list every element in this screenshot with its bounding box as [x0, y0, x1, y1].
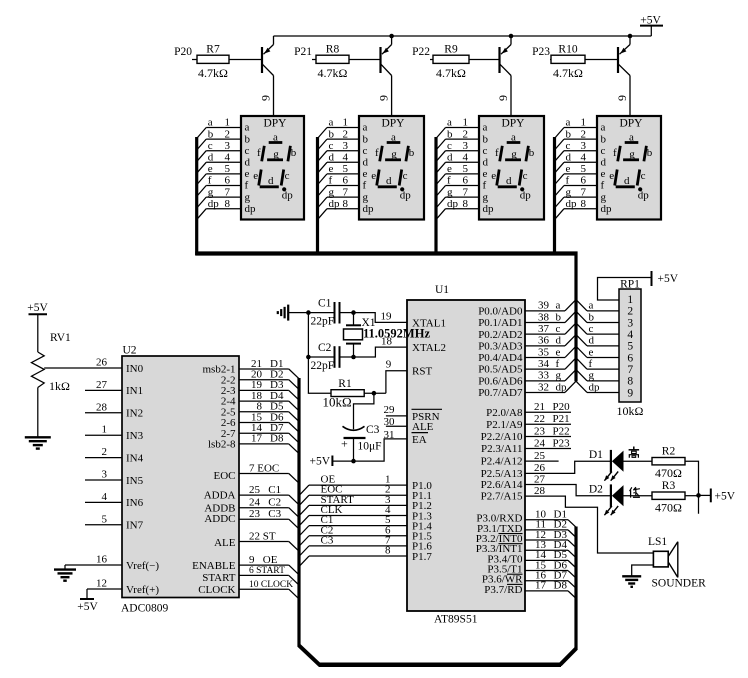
+5V supply (Vref+) [77, 589, 98, 613]
svg-text:R2: R2 [662, 446, 676, 458]
svg-text:DPY: DPY [619, 118, 643, 130]
svg-text:Vref(+): Vref(+) [126, 584, 159, 596]
resistor R1 10k&#937; [323, 378, 365, 410]
svg-text:d: d [601, 157, 607, 169]
svg-text:d: d [363, 157, 369, 169]
LED D1 [589, 449, 624, 481]
bus: bottom U-loop [299, 645, 577, 665]
wire U2 control 22 ST to bus [239, 530, 299, 551]
svg-text:9: 9 [615, 95, 629, 101]
wire to XTAL2 pin 18 [354, 335, 408, 357]
svg-text:6: 6 [343, 175, 349, 187]
resistor R10 4.7k&#937; [551, 44, 585, 81]
svg-text:AT89S51: AT89S51 [434, 614, 478, 626]
svg-text:f: f [601, 180, 605, 192]
svg-text:5: 5 [102, 513, 108, 525]
resistor R7 4.7k&#937; [197, 44, 229, 81]
svg-text:g: g [566, 186, 572, 198]
svg-text:dp: dp [483, 203, 495, 215]
svg-text:P1.7: P1.7 [412, 551, 432, 563]
wire U1 P3.5 (D6) to bus [525, 559, 576, 578]
svg-text:e: e [601, 168, 606, 180]
svg-text:6: 6 [463, 175, 469, 187]
node pin 31 label [384, 429, 395, 441]
wire R1 right to RST node [364, 392, 386, 394]
wire U2 data out 20 D2 to bus [239, 369, 299, 390]
+5V power symbol (top right) [640, 15, 663, 37]
svg-text:b: b [291, 147, 297, 159]
7-segment display DPY1 [241, 116, 304, 220]
svg-text:4: 4 [343, 152, 349, 164]
wire R7 to Q1 base [229, 59, 262, 61]
wire DPY1 pin 2 (b) [198, 128, 242, 149]
svg-text:b: b [409, 147, 415, 159]
wire P20 to R7 [192, 59, 197, 61]
svg-text:f: f [329, 175, 333, 187]
wire DPY1 pin 7 (g) [198, 186, 242, 207]
crystal frequency label 11.0592MHz [363, 327, 430, 341]
svg-text:29: 29 [384, 404, 396, 416]
svg-text:5: 5 [225, 163, 231, 175]
svg-text:IN0: IN0 [126, 363, 144, 375]
svg-text:7: 7 [343, 186, 349, 198]
svg-text:P2.3/A11: P2.3/A11 [481, 443, 522, 455]
node P23 [532, 46, 550, 58]
svg-text:470Ω: 470Ω [655, 501, 682, 515]
wire RV1 wiper to IN0 [44, 367, 122, 369]
svg-text:c: c [403, 170, 408, 182]
svg-text:3: 3 [225, 140, 231, 152]
wire DPY3 pin 8 (dp) [437, 198, 479, 219]
svg-text:a: a [566, 117, 571, 129]
svg-text:C2: C2 [318, 342, 332, 354]
svg-text:D2: D2 [589, 484, 603, 496]
wire Q3 collector to display pin 9 [496, 76, 511, 117]
svg-text:R1: R1 [338, 378, 352, 390]
svg-text:P2.4/A12: P2.4/A12 [481, 456, 523, 468]
svg-text:c: c [208, 140, 213, 152]
svg-text:470Ω: 470Ω [655, 466, 682, 480]
svg-text:5: 5 [343, 163, 349, 175]
wire U1 P2.3 (P23) [525, 437, 571, 449]
svg-text:P22: P22 [412, 46, 430, 58]
svg-text:e: e [253, 170, 258, 182]
wire U1 P3.3 (D4) to bus [525, 539, 576, 558]
svg-text:IN2: IN2 [126, 408, 143, 420]
svg-text:9: 9 [259, 95, 273, 101]
segment bus for DPY1 [195, 137, 198, 255]
svg-text:a: a [589, 300, 594, 312]
svg-text:3: 3 [463, 140, 469, 152]
bus: right vertical (segment data to RP1/P0) [574, 252, 577, 382]
svg-text:c: c [329, 140, 334, 152]
bus: left vertical (ADC data/control) [297, 378, 300, 647]
svg-text:1: 1 [225, 117, 231, 129]
svg-text:P0.1/AD1: P0.1/AD1 [478, 317, 522, 329]
svg-text:+5V: +5V [77, 601, 98, 613]
transistor Q4 (PNP) [618, 36, 630, 76]
wire U1 P2.4 pin 25 stub [525, 450, 559, 462]
wire DPY2 pin 2 (b) [318, 128, 359, 149]
svg-text:b: b [447, 128, 453, 140]
node P21 [294, 46, 312, 58]
wire DPY4 pin 8 (dp) [555, 198, 597, 219]
svg-text:f: f [589, 358, 593, 370]
svg-text:24: 24 [534, 437, 546, 449]
junction R1/RST/C3 [372, 391, 377, 396]
wire DPY2 pin 5 (e) [318, 163, 359, 184]
wire D1 to R2 [624, 460, 653, 462]
svg-text:D8: D8 [554, 580, 568, 592]
svg-text:34: 34 [538, 358, 550, 370]
svg-text:22 ST: 22 ST [249, 530, 276, 542]
svg-text:P0.3/AD3: P0.3/AD3 [478, 340, 523, 352]
svg-text:d: d [506, 175, 512, 187]
wire P0.4 segment e to RP1 pin 6 [525, 346, 619, 358]
svg-text:a: a [483, 122, 488, 134]
svg-text:b: b [329, 128, 335, 140]
wire P0.7 segment dp to RP1 pin 9 [525, 381, 619, 393]
svg-text:f: f [566, 175, 570, 187]
svg-text:4.7kΩ: 4.7kΩ [553, 66, 583, 80]
wire U2 control 6 START to bus [239, 566, 299, 585]
wire U2 IN3 pin 1 [85, 424, 122, 436]
svg-text:c: c [447, 140, 452, 152]
svg-text:4.7kΩ: 4.7kΩ [198, 66, 228, 80]
wire U2 Vref(+) pin 12 [87, 578, 122, 590]
transistor Q1 (PNP) [262, 36, 274, 76]
wire DPY1 pin 1 (a) [198, 117, 242, 138]
wire DPY2 pin 6 (f) [318, 175, 359, 196]
svg-text:dp: dp [363, 203, 375, 215]
wire U2 IN4 pin 2 [85, 446, 122, 458]
wire DPY4 pin 3 (c) [555, 140, 597, 161]
wire U1 P1.2 to bus [300, 494, 408, 516]
wire C1-C2 left link [307, 313, 309, 357]
ground (RV1) [25, 437, 51, 448]
wire DPY1 pin 8 (dp) [198, 198, 242, 219]
svg-text:a: a [556, 300, 561, 312]
svg-text:d: d [329, 152, 335, 164]
svg-text:SOUNDER: SOUNDER [652, 578, 707, 590]
svg-text:8: 8 [343, 198, 349, 210]
wire P0.1 segment b to RP1 pin 3 [525, 311, 619, 323]
wire DPY4 pin 1 (a) [555, 117, 597, 138]
svg-text:26: 26 [96, 357, 108, 369]
svg-text:3: 3 [343, 140, 349, 152]
svg-text:Vref(−): Vref(−) [126, 560, 159, 572]
label &#39640; (high) [629, 447, 640, 458]
svg-text:c: c [566, 140, 571, 152]
svg-text:e: e [483, 168, 488, 180]
svg-text:g: g [363, 191, 369, 203]
svg-text:7: 7 [463, 186, 469, 198]
svg-text:25 C1: 25 C1 [249, 484, 281, 496]
U1 pin name labels (right) [476, 306, 523, 596]
svg-text:lsb2-8: lsb2-8 [208, 439, 236, 451]
svg-text:4: 4 [102, 491, 108, 503]
wire U2 control 10 CLOCK to bus [239, 580, 299, 599]
svg-text:ALE: ALE [214, 537, 236, 549]
svg-text:+5V: +5V [658, 273, 679, 285]
svg-text:f: f [613, 147, 617, 159]
svg-text:33: 33 [538, 370, 550, 382]
resistor R3 470&#937; [652, 480, 685, 515]
wire U2 IN5 pin 3 [85, 469, 122, 481]
svg-text:d: d [268, 175, 274, 187]
svg-text:P0.7/AD7: P0.7/AD7 [478, 387, 523, 399]
svg-text:f: f [495, 147, 499, 159]
wire DPY1 pin 5 (e) [198, 163, 242, 184]
svg-text:d: d [245, 157, 251, 169]
wire U1 P3.6 (D7) to bus [525, 570, 576, 589]
node pin 26 label (IN0) [96, 357, 108, 369]
wire DPY4 pin 7 (g) [555, 186, 597, 207]
wire U1 P2.5 pin 26 to LED D1 [525, 461, 611, 474]
wire DPY4 pin 6 (f) [555, 175, 597, 196]
svg-text:f: f [363, 180, 367, 192]
svg-text:+5V: +5V [715, 491, 736, 503]
svg-text:g: g [208, 186, 214, 198]
wire speaker to ground [632, 565, 654, 576]
label &#20302; (low) [630, 487, 640, 498]
svg-text:D1: D1 [589, 449, 603, 461]
svg-text:a: a [601, 122, 606, 134]
svg-text:9 OE: 9 OE [249, 554, 278, 566]
svg-text:DPY: DPY [381, 118, 405, 130]
potentiometer RV1 1k&#937; [31, 332, 71, 393]
svg-text:C3: C3 [366, 424, 380, 436]
junction R2/R3 +5V [696, 493, 701, 498]
svg-text:d: d [483, 157, 489, 169]
svg-text:e: e [245, 168, 250, 180]
transistor Q3 (PNP) [500, 36, 512, 76]
svg-text:b: b [589, 311, 595, 323]
svg-text:6: 6 [627, 352, 633, 364]
wire U1 P3.4 (D5) to bus [525, 549, 576, 568]
wire DPY4 pin 2 (b) [555, 128, 597, 149]
svg-text:e: e [363, 168, 368, 180]
svg-text:d: d [556, 335, 562, 347]
junction on +5V rail [628, 34, 633, 39]
wire U1 P2.7 pin 28 to sounder [525, 485, 653, 553]
svg-text:10kΩ: 10kΩ [323, 395, 352, 410]
7-segment display DPY3 [479, 116, 544, 220]
svg-text:+5V: +5V [309, 456, 330, 468]
U2 pin name labels (left) [126, 363, 159, 596]
wire DPY1 pin 6 (f) [198, 175, 242, 196]
svg-text:R9: R9 [444, 44, 458, 56]
svg-text:e: e [609, 170, 614, 182]
svg-text:d: d [447, 152, 453, 164]
wire P23 to R10 [550, 59, 551, 61]
wire U1 P3.1 (D2) to bus [525, 519, 576, 538]
wire U1 P2.0 (P20) [525, 401, 571, 413]
svg-text:dp: dp [208, 198, 220, 210]
svg-text:g: g [329, 186, 335, 198]
svg-text:39: 39 [538, 300, 550, 312]
svg-text:23 C3: 23 C3 [249, 508, 282, 520]
svg-text:P2.0/A8: P2.0/A8 [486, 407, 523, 419]
svg-text:e: e [329, 163, 334, 175]
svg-text:6 START: 6 START [249, 566, 285, 576]
wire DPY2 pin 1 (a) [318, 117, 359, 138]
svg-text:37: 37 [538, 323, 550, 335]
wire P0.0 segment a to RP1 pin 2 [525, 300, 619, 312]
wire +5V to RP1 pin 1 [598, 278, 652, 301]
svg-text:f: f [375, 147, 379, 159]
wire C2 junction down to R1 [308, 357, 331, 393]
crystal X1 11.0592MHz [344, 313, 376, 357]
svg-text:f: f [257, 147, 261, 159]
svg-text:P21: P21 [294, 46, 312, 58]
svg-text:a: a [329, 117, 334, 129]
U2 pin name labels (right) [192, 364, 236, 597]
svg-text:7: 7 [627, 364, 633, 376]
svg-text:e: e [491, 170, 496, 182]
svg-text:1kΩ: 1kΩ [49, 379, 70, 393]
svg-text:8: 8 [581, 198, 587, 210]
svg-text:DPY: DPY [501, 118, 525, 130]
wire P0.2 segment c to RP1 pin 4 [525, 323, 619, 335]
svg-text:D8: D8 [270, 433, 284, 445]
svg-text:38: 38 [538, 311, 550, 323]
svg-text:+5V: +5V [27, 302, 48, 314]
junction C1 right / XTAL1 [351, 310, 356, 315]
svg-text:31: 31 [384, 429, 395, 441]
wire to RST pin 9 [386, 359, 407, 394]
svg-text:c: c [641, 170, 646, 182]
resistor R9 4.7k&#937; [433, 44, 469, 81]
svg-text:4: 4 [627, 329, 633, 341]
capacitor C1 22pF [308, 298, 353, 328]
svg-text:36: 36 [538, 335, 550, 347]
svg-text:4.7kΩ: 4.7kΩ [436, 66, 466, 80]
wire DPY3 pin 3 (c) [437, 140, 479, 161]
svg-text:6: 6 [581, 175, 587, 187]
svg-text:dp: dp [589, 381, 601, 393]
svg-text:10μF: 10μF [358, 441, 382, 453]
wire DPY3 pin 6 (f) [437, 175, 479, 196]
svg-text:g: g [447, 186, 453, 198]
wire DPY1 pin 3 (c) [198, 140, 242, 161]
junction on +5V rail [389, 34, 394, 39]
svg-text:b: b [566, 128, 572, 140]
svg-text:30: 30 [384, 416, 396, 428]
wire U1 P1.3 to bus [300, 504, 408, 526]
svg-text:8: 8 [627, 376, 633, 388]
segment bus for DPY4 [553, 137, 556, 255]
wire R8 to Q2 base [349, 59, 381, 61]
svg-text:4: 4 [581, 152, 587, 164]
svg-text:IN6: IN6 [126, 497, 144, 509]
wire U2 data out 15 D6 to bus [239, 411, 299, 432]
svg-text:dp: dp [556, 381, 568, 393]
svg-text:P22: P22 [553, 425, 570, 437]
svg-text:dp: dp [282, 190, 294, 202]
svg-text:e: e [447, 163, 452, 175]
ground (oscillator, pointing left) [278, 305, 293, 321]
svg-text:P21: P21 [553, 413, 570, 425]
wire DPY4 pin 4 (d) [555, 152, 597, 173]
wire DPY3 pin 7 (g) [437, 186, 479, 207]
svg-text:2: 2 [343, 128, 349, 140]
svg-text:P0.6/AD6: P0.6/AD6 [478, 375, 523, 387]
svg-text:d: d [589, 335, 595, 347]
svg-text:e: e [566, 163, 571, 175]
svg-text:dp: dp [329, 198, 341, 210]
svg-text:27: 27 [534, 473, 546, 485]
wire U2 IN2 pin 28 [85, 401, 122, 413]
svg-text:RST: RST [412, 366, 432, 378]
wire R9 to Q3 base [469, 59, 500, 61]
wire U1 P1.6 to bus [300, 534, 408, 556]
wire DPY3 pin 1 (a) [437, 117, 479, 138]
svg-text:dp: dp [400, 190, 412, 202]
svg-text:IN3: IN3 [126, 430, 144, 442]
svg-text:f: f [483, 180, 487, 192]
svg-text:1: 1 [581, 117, 587, 129]
svg-text:22pF: 22pF [311, 360, 335, 372]
svg-text:7: 7 [581, 186, 587, 198]
svg-text:P0.5/AD5: P0.5/AD5 [478, 364, 523, 376]
svg-text:32: 32 [538, 381, 549, 393]
svg-text:P20: P20 [553, 401, 571, 413]
wire U2 IN7 pin 5 [85, 513, 122, 525]
svg-text:DPY: DPY [263, 118, 287, 130]
svg-text:LS1: LS1 [648, 536, 667, 548]
speaker LS1 SOUNDER [648, 536, 706, 590]
bus: display common bottom bus [195, 251, 577, 255]
svg-text:b: b [647, 147, 653, 159]
svg-text:+: + [341, 437, 348, 451]
svg-text:7 EOC: 7 EOC [249, 462, 279, 474]
svg-text:25: 25 [534, 450, 546, 462]
svg-text:9: 9 [496, 95, 510, 101]
wire RV1 to ground [37, 388, 39, 438]
svg-text:P2.2/A10: P2.2/A10 [481, 431, 523, 443]
svg-text:d: d [566, 152, 572, 164]
svg-text:2: 2 [225, 128, 231, 140]
svg-text:EOC: EOC [214, 470, 236, 482]
svg-text:3: 3 [627, 317, 633, 329]
wire DPY2 pin 4 (d) [318, 152, 359, 173]
svg-text:5: 5 [581, 163, 587, 175]
svg-text:IN1: IN1 [126, 385, 143, 397]
wire U1 P2.2 (P22) [525, 425, 571, 437]
junction on +5V rail [509, 34, 514, 39]
junction C1 left [306, 310, 311, 315]
svg-text:a: a [363, 122, 368, 134]
svg-text:c: c [556, 323, 561, 335]
wire U2 Vref(-) pin 16 [65, 554, 122, 566]
resistor pack RP1 10k&#937; [617, 279, 644, 419]
svg-text:dp: dp [601, 203, 613, 215]
svg-text:R8: R8 [326, 44, 340, 56]
wire DPY3 pin 5 (e) [437, 163, 479, 184]
svg-text:e: e [589, 346, 594, 358]
svg-text:f: f [245, 180, 249, 192]
wire U1 P1.5 to bus [300, 524, 408, 546]
capacitor C2 22pF [308, 342, 353, 372]
svg-text:ADC0809: ADC0809 [121, 603, 169, 615]
svg-text:9: 9 [386, 359, 392, 371]
wire U2 data out 18 D4 to bus [239, 390, 299, 411]
svg-text:28: 28 [96, 401, 108, 413]
svg-text:9: 9 [627, 387, 633, 399]
wire U2 data out 14 D7 to bus [239, 422, 299, 443]
IC U2 ADC0809 [121, 345, 239, 615]
